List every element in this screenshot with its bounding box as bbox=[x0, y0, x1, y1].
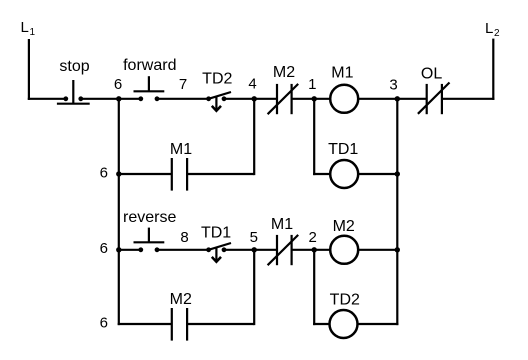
svg-text:M2: M2 bbox=[273, 64, 295, 81]
svg-text:TD1: TD1 bbox=[201, 224, 231, 241]
svg-text:1: 1 bbox=[30, 27, 36, 38]
svg-text:M1: M1 bbox=[331, 64, 353, 81]
svg-text:2: 2 bbox=[494, 28, 500, 39]
svg-text:7: 7 bbox=[179, 76, 187, 93]
svg-text:6: 6 bbox=[100, 240, 108, 257]
wire branch2 right bbox=[187, 173, 254, 175]
wire rung1 forward to TD2 contact bbox=[157, 98, 209, 100]
svg-text:6: 6 bbox=[114, 76, 122, 93]
wire rung1 coil M1 to node 3 to OL bbox=[358, 98, 427, 100]
wire TD1 coil branch right bbox=[358, 173, 397, 175]
node 4 junction bbox=[252, 96, 257, 101]
contact M1 (NC) rung3 bbox=[268, 235, 299, 265]
svg-text:reverse: reverse bbox=[123, 209, 176, 226]
node L1 terminal label bbox=[21, 19, 36, 38]
overload contact OL (NC) bbox=[418, 83, 450, 115]
svg-text:L: L bbox=[21, 19, 29, 36]
pushbutton stop (NC) bbox=[57, 80, 90, 104]
node 6 junction rung1 bbox=[116, 96, 121, 101]
wire TD1 coil branch left bbox=[313, 173, 330, 175]
svg-text:TD2: TD2 bbox=[202, 70, 232, 87]
wire TD2 coil branch right bbox=[358, 323, 399, 325]
node L2 terminal label bbox=[485, 20, 500, 39]
wire rung1 L1 to stop bbox=[28, 98, 66, 100]
svg-text:M2: M2 bbox=[170, 291, 192, 308]
wire rung3 reverse to TD1 contact bbox=[157, 249, 209, 251]
wire branch4 right bbox=[187, 323, 254, 325]
svg-text:8: 8 bbox=[180, 229, 188, 246]
node 6 junction rung3 bbox=[116, 247, 121, 252]
svg-text:M1: M1 bbox=[170, 141, 192, 158]
svg-text:6: 6 bbox=[100, 315, 108, 332]
wire left rail node6 down bbox=[118, 99, 120, 325]
wire right rail bbox=[396, 99, 398, 325]
svg-text:L: L bbox=[485, 20, 493, 37]
wire L2 rail bbox=[492, 39, 494, 100]
wire rung1 OL to L2 rail bbox=[442, 98, 495, 100]
coil TD2 bbox=[330, 310, 358, 338]
wire node2 vertical bbox=[313, 249, 315, 325]
wire rung3 M1 to node 2 to coil M2 bbox=[292, 249, 331, 251]
svg-text:M1: M1 bbox=[271, 216, 293, 233]
timed contact TD2 (NOTC) bbox=[206, 92, 231, 111]
wire rung1 M2 to node 1 to coil M1 bbox=[292, 98, 331, 100]
pushbutton forward (NO) bbox=[134, 76, 165, 101]
wire rung3 rail to reverse bbox=[119, 249, 141, 251]
contact M1 (NO) holding branch2 bbox=[172, 158, 187, 191]
svg-text:6: 6 bbox=[100, 164, 108, 181]
node 3 junction bbox=[395, 96, 400, 101]
wire rung1 stop to node 6 to forward bbox=[81, 98, 141, 100]
wire rung3 coil M2 to right rail bbox=[358, 249, 397, 251]
node junction right rail rung3 bbox=[395, 247, 400, 252]
wire L1 rail bbox=[28, 39, 30, 100]
svg-text:5: 5 bbox=[250, 229, 258, 246]
pushbutton reverse (NO) bbox=[134, 228, 165, 253]
wire node4 vertical bbox=[253, 98, 255, 175]
svg-text:3: 3 bbox=[389, 77, 397, 94]
svg-text:stop: stop bbox=[59, 58, 89, 75]
node junction right rail branch2 bbox=[395, 171, 400, 176]
coil M2 bbox=[330, 236, 358, 264]
coil TD1 bbox=[330, 160, 358, 188]
wire rung1 TD2 to node 4 to M2 contact bbox=[224, 98, 277, 100]
contact M2 (NO) holding branch4 bbox=[172, 308, 187, 341]
svg-text:M2: M2 bbox=[333, 218, 355, 235]
svg-text:forward: forward bbox=[123, 57, 176, 74]
node 1 junction bbox=[312, 96, 317, 101]
timed contact TD1 (NOTC) bbox=[206, 243, 231, 262]
wire rung3 TD1 to node 5 to M1 contact bbox=[224, 249, 277, 251]
svg-text:OL: OL bbox=[421, 65, 442, 82]
coil M1 bbox=[330, 85, 358, 113]
node 2 junction bbox=[312, 247, 317, 252]
svg-text:TD1: TD1 bbox=[328, 141, 358, 158]
contact M2 (NC) rung1 bbox=[268, 84, 299, 114]
svg-text:4: 4 bbox=[248, 76, 256, 93]
node 6 junction branch2 bbox=[116, 171, 121, 176]
wire branch4 left bbox=[118, 323, 172, 325]
wire TD2 coil branch left bbox=[313, 323, 329, 325]
node 5 junction bbox=[252, 247, 257, 252]
svg-text:1: 1 bbox=[308, 76, 316, 93]
wire node1 vertical bbox=[313, 98, 315, 175]
wire branch2 left bbox=[119, 173, 172, 175]
wire node5 vertical bbox=[253, 249, 255, 325]
svg-text:TD2: TD2 bbox=[330, 291, 360, 308]
svg-text:2: 2 bbox=[309, 229, 317, 246]
